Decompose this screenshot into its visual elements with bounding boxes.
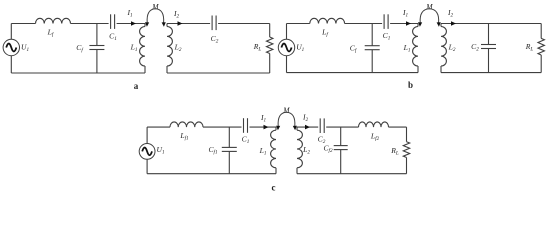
- wire bottom primary (b): [287, 72, 419, 74]
- capacitor Cf (a): [89, 45, 104, 47]
- inductor L1 primary coil (a): [144, 24, 146, 27]
- wire source bottom (a): [10, 56, 12, 73]
- wire right-wall top (a): [269, 24, 271, 38]
- wire top-left (b): [287, 23, 310, 25]
- wire Cf2-branch top (c): [340, 127, 342, 146]
- wire C2-junction (c): [326, 126, 358, 128]
- wire C2-branch top (b): [488, 24, 490, 45]
- wire source-top (b): [286, 24, 288, 40]
- wire Lf-C1 (a): [71, 23, 109, 25]
- wire right-wall bottom (a): [269, 54, 271, 74]
- inductor Lf (a): [36, 18, 71, 23]
- wire Cf-branch top (b): [371, 24, 373, 46]
- wire right-wall top (c): [406, 127, 408, 142]
- capacitor Cf1 (c): [222, 146, 237, 148]
- wire bottom primary (a): [11, 72, 145, 74]
- capacitor Cf (b): [365, 45, 380, 47]
- wire source-top (c): [146, 127, 148, 143]
- inductor L2 secondary coil (a): [166, 24, 168, 27]
- wire C2-branch bottom (b): [488, 49, 490, 73]
- inductor L1 primary coil (b): [417, 24, 419, 27]
- wire Cf-branch top (a): [96, 24, 98, 46]
- capacitor C2 (b): [481, 44, 496, 46]
- wire L2-C2 (c): [297, 126, 318, 128]
- wire right-wall bottom (b): [540, 55, 542, 73]
- capacitor C1 (a): [110, 14, 112, 29]
- wire right-wall top (b): [540, 24, 542, 39]
- wire Cf-branch bottom (a): [96, 50, 98, 74]
- wire L2-C2 (a): [167, 23, 210, 25]
- wire bottom primary (c): [147, 173, 276, 175]
- inductor Lf2 (c): [359, 122, 389, 127]
- wire C1-L1 (c): [250, 126, 277, 128]
- wire source-top (a): [10, 24, 12, 40]
- inductor L2 secondary coil (c): [296, 127, 298, 130]
- wire top-left (c): [147, 126, 170, 128]
- wire C1-L1 (a): [117, 23, 145, 25]
- capacitor C2 (c): [319, 118, 321, 133]
- current arrow I2 (c): [305, 125, 310, 130]
- capacitor Cf2 (c): [334, 145, 348, 147]
- svg-text:M: M: [151, 2, 159, 11]
- svg-text:a: a: [134, 81, 139, 91]
- wire Lf-C1 (b): [345, 23, 383, 25]
- current arrow I1 (c): [264, 125, 269, 130]
- inductor Lf1 (c): [170, 122, 203, 127]
- svg-text:M: M: [425, 2, 433, 11]
- wire Cf1-branch top (c): [228, 127, 230, 147]
- wire C2-right (a): [218, 23, 270, 25]
- current arrow I2 (a): [178, 21, 183, 26]
- svg-text:b: b: [408, 80, 413, 90]
- svg-text:M: M: [282, 105, 290, 114]
- wire top-left (a): [11, 23, 35, 25]
- mutual inductance M arrow (b): [420, 9, 439, 23]
- AC source U1 (circuit b): [278, 39, 294, 55]
- wire C1-L1 (b): [390, 23, 418, 25]
- wire bottom secondary (c): [297, 173, 407, 175]
- wire L2-right (b): [441, 23, 541, 25]
- wire Cf-branch bottom (b): [371, 50, 373, 73]
- AC source U1 (circuit a): [3, 39, 19, 55]
- capacitor C1 (b): [383, 14, 385, 29]
- svg-text:c: c: [272, 183, 276, 193]
- capacitor C1 (c): [243, 118, 245, 133]
- wire source bottom (c): [146, 159, 148, 173]
- wire Lf1-C1 (c): [203, 126, 242, 128]
- current arrow I1 (a): [131, 21, 136, 26]
- resistor RL (a): [267, 37, 273, 54]
- wire Cf2-branch bottom (c): [340, 150, 342, 174]
- capacitor C2 (a): [211, 16, 213, 31]
- resistor RL (c): [403, 142, 409, 158]
- wire Cf1-branch bottom (c): [228, 151, 230, 173]
- wire bottom secondary (a): [167, 72, 270, 74]
- wire source bottom (b): [286, 56, 288, 73]
- mutual inductance M arrow (a): [147, 9, 164, 23]
- current arrow I1 (b): [406, 21, 411, 26]
- wire bottom secondary (b): [441, 72, 541, 74]
- inductor L2 secondary coil (b): [440, 24, 442, 27]
- wire right-wall bottom (c): [406, 158, 408, 174]
- wire Lf2-right (c): [389, 126, 407, 128]
- current arrow I2 (b): [451, 21, 456, 26]
- AC source U1 (circuit c): [139, 144, 155, 160]
- mutual inductance M arrow (c): [278, 112, 295, 126]
- resistor RL (b): [538, 38, 544, 55]
- inductor L1 primary coil (c): [275, 127, 277, 130]
- inductor Lf (b): [310, 18, 345, 23]
